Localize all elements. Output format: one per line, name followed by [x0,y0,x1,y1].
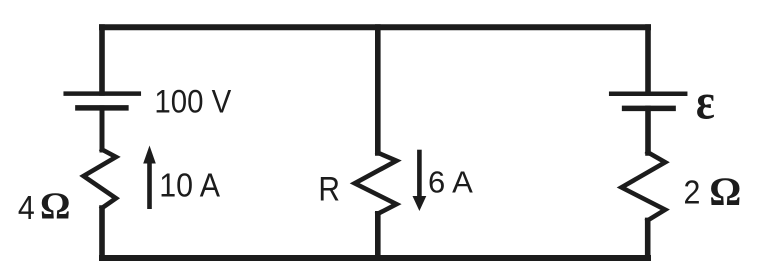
wire middle-top to resistor R [375,27,381,153]
wire resistor 4ohm to bottom [99,208,105,258]
svg-text:Ω: Ω [709,169,741,214]
svg-text:2: 2 [684,174,701,211]
battery 100V top plate [66,91,139,96]
svg-text:10 A: 10 A [159,166,221,203]
svg-text:4: 4 [18,189,35,226]
resistor 4ohm zigzag [84,150,117,209]
svg-text:R: R [318,170,340,208]
battery emf bottom plate [625,106,674,112]
wire bottom [102,255,648,261]
current arrow 10A up [143,146,156,210]
current arrow 6A down [413,150,427,211]
wire right-top to battery emf [645,27,651,93]
wire battery emf to resistor 2ohm [645,108,651,153]
wire resistor R to bottom [375,214,381,258]
svg-text:100 V: 100 V [154,83,231,119]
resistor R zigzag [355,153,397,214]
resistor 2ohm zigzag [622,152,666,220]
svg-text:ε: ε [696,73,715,130]
wire battery to resistor 4ohm [100,108,105,150]
wire resistor 2ohm to bottom [645,220,651,258]
wire top [102,24,648,30]
svg-text:6 A: 6 A [428,165,473,200]
battery 100V bottom plate [78,105,126,111]
battery emf top plate [611,91,685,96]
wire left-top (node A to battery) [99,27,105,93]
svg-text:Ω: Ω [40,186,70,228]
